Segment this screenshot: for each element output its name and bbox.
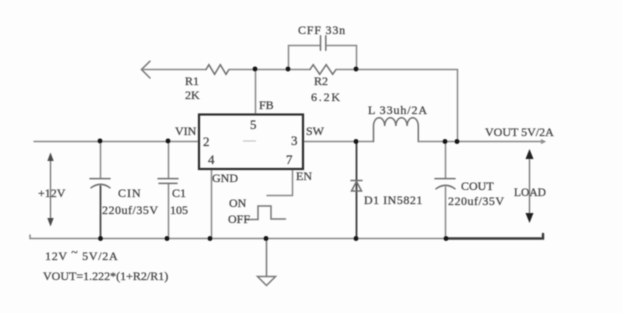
junction dot diode top — [354, 139, 359, 144]
capacitor C1 leads — [168, 142, 170, 239]
svg-text:5: 5 — [250, 117, 257, 132]
svg-text:2: 2 — [203, 134, 210, 149]
wire CFF right riser — [327, 46, 357, 70]
node +12V span arrow — [50, 158, 52, 221]
capacitor CIN bottom lead (bold) — [100, 186, 102, 239]
node LOAD arrowheads — [526, 149, 534, 159]
node FB arrow (left open chevron) — [142, 61, 151, 78]
junction dot COUT bottom — [444, 236, 449, 241]
svg-text:6.2K: 6.2K — [311, 90, 342, 104]
svg-text:FB: FB — [259, 98, 274, 112]
capacitor CIN plates — [90, 178, 110, 180]
IC U1 body — [199, 115, 303, 170]
svg-text:C1: C1 — [172, 186, 186, 200]
svg-text:3: 3 — [291, 133, 298, 148]
wire GND pin to bus — [211, 169, 213, 239]
node VOUT rail end tick — [542, 140, 545, 143]
junction dot C1 top — [166, 139, 171, 144]
wire EN pin stub — [267, 169, 293, 196]
svg-text:D1 IN5821: D1 IN5821 — [364, 193, 423, 207]
svg-text:105: 105 — [170, 203, 188, 217]
junction dot feedback drop — [455, 139, 460, 144]
svg-text:ON: ON — [229, 196, 247, 210]
wire feedback line left of R1 — [143, 69, 206, 71]
capacitor CFF plates — [321, 36, 326, 51]
wire CFF left riser — [289, 46, 320, 70]
ground — [266, 239, 268, 277]
wire ground bus — [30, 235, 446, 239]
resistor R1 — [206, 65, 229, 75]
junction dot C1 bottom — [165, 236, 170, 241]
junction dot CFF right — [354, 67, 359, 72]
junction dot CIN top — [98, 139, 103, 144]
svg-text:2K: 2K — [185, 88, 200, 102]
capacitor C1 plates — [158, 179, 178, 184]
junction dot FB node — [253, 67, 258, 72]
wire FB drop to pin 5 — [255, 70, 257, 115]
svg-text:220uf/35V: 220uf/35V — [448, 194, 505, 208]
junction dot COUT top — [443, 139, 448, 144]
capacitor COUT top lead — [445, 142, 447, 178]
wire SW rail from pin 3 — [303, 141, 373, 143]
svg-text:CFF 33n: CFF 33n — [298, 23, 346, 37]
svg-text:VOUT=1.222*(1+R2/R1): VOUT=1.222*(1+R2/R1) — [43, 269, 168, 283]
svg-text:OFF: OFF — [228, 212, 250, 226]
wire VOUT rail — [418, 141, 544, 143]
junction dot CFF left — [286, 67, 291, 72]
diode D1 lead — [356, 142, 358, 239]
wire ground bus bold right — [446, 234, 543, 239]
svg-text:CIN: CIN — [118, 186, 142, 200]
svg-text:SW: SW — [306, 124, 325, 138]
node LOAD span arrow — [529, 156, 531, 216]
diode D1 symbol — [351, 181, 362, 192]
svg-text:4: 4 — [208, 152, 215, 167]
svg-text:LOAD: LOAD — [514, 187, 546, 199]
svg-text:220uf/35V: 220uf/35V — [102, 203, 159, 217]
IC U1 body faint interior mark — [243, 140, 256, 142]
svg-text:VOUT 5V/2A: VOUT 5V/2A — [485, 125, 554, 139]
junction dot diode bottom — [354, 236, 359, 241]
node +12V arrowheads — [47, 153, 53, 162]
capacitor CIN top lead — [100, 142, 102, 178]
svg-text:R2: R2 — [314, 74, 328, 88]
svg-text:GND: GND — [212, 171, 238, 185]
capacitor COUT bottom lead — [445, 187, 447, 239]
inductor L 33uh/2A — [374, 118, 419, 142]
capacitor COUT plates — [435, 178, 455, 180]
wire R2 to feedback drop — [336, 70, 458, 142]
wire input rail — [34, 141, 199, 143]
svg-text:+12V: +12V — [38, 186, 66, 200]
wire R1 to R2 — [229, 69, 310, 71]
junction dot CIN bottom — [98, 236, 103, 241]
junction dot ground symbol — [264, 236, 269, 241]
svg-text:R1: R1 — [185, 74, 199, 88]
svg-text:7: 7 — [286, 152, 293, 167]
svg-text:L 33uh/2A: L 33uh/2A — [368, 103, 428, 117]
junction dot GND bottom — [208, 236, 213, 241]
node ON/OFF pulse waveform — [245, 206, 286, 220]
resistor R2 — [310, 65, 336, 75]
svg-text:VIN: VIN — [175, 124, 197, 138]
svg-text:COUT: COUT — [461, 179, 494, 193]
svg-text:EN: EN — [296, 169, 312, 183]
